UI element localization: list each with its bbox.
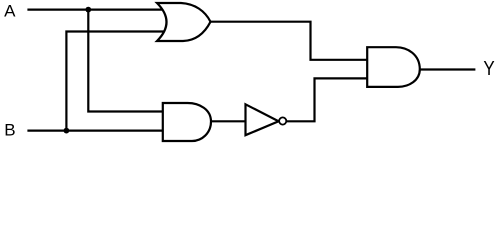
svg-text:Y: Y	[483, 58, 495, 81]
svg-text:A: A	[4, 2, 16, 21]
wire OR gate U1 output to AND gate U4 upper input	[209, 22, 368, 60]
wire Y output	[420, 68, 476, 70]
wire inverter U3 output to AND gate U4 lower input	[287, 78, 369, 121]
inverter U3 output bubble	[279, 117, 286, 124]
wire branch from node B up to OR gate U1 lower input	[66, 32, 164, 131]
wire AND gate U2 output to inverter U3 input	[210, 120, 247, 122]
inverter (NOT gate) U3 triangle	[246, 104, 279, 135]
and-gate U2	[163, 103, 211, 141]
output label Y	[483, 58, 495, 81]
wire A horizontal	[27, 9, 165, 11]
and-gate U4	[367, 47, 420, 87]
wire B horizontal	[27, 130, 164, 132]
node junction dot on wire A	[85, 7, 91, 13]
node junction dot on wire B	[64, 128, 70, 134]
svg-text:B: B	[4, 121, 15, 140]
wire branch from node A down to AND gate U2 top input	[88, 10, 164, 112]
or-gate U1	[157, 3, 211, 41]
